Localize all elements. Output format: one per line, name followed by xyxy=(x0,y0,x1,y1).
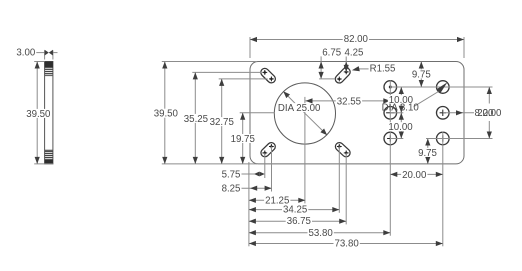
bottom extension slot BL lower hole xyxy=(264,153,266,178)
6.75 horizontal extension to slot xyxy=(319,78,335,80)
svg-text:34.25: 34.25 xyxy=(283,205,307,216)
32.75 dimension xyxy=(221,79,223,164)
hole left-column top xyxy=(384,81,397,94)
svg-text:10.00: 10.00 xyxy=(388,122,413,133)
extension line row3 xyxy=(390,138,403,140)
bottom extension slot BL upper hole xyxy=(271,147,273,192)
left extension circle center xyxy=(240,112,275,114)
svg-text:20.00: 20.00 xyxy=(477,108,502,119)
right column extension line down xyxy=(442,132,444,247)
svg-text:73.80: 73.80 xyxy=(335,239,360,250)
side view: 3.00 dim leader line xyxy=(36,52,45,54)
big circle vertical centerline xyxy=(304,97,306,203)
4.25 dim line and arrows xyxy=(345,56,347,72)
svg-text:35.25: 35.25 xyxy=(184,114,208,125)
6.75 dim line and arrows xyxy=(320,56,322,79)
34.25 dimension xyxy=(249,209,339,211)
21.25 dimension xyxy=(249,199,305,201)
39.50 dimension main xyxy=(164,62,166,164)
svg-text:39.50: 39.50 xyxy=(154,109,179,120)
side view: bottom hatch section xyxy=(45,150,53,152)
extension line right holes row1 xyxy=(390,86,492,88)
svg-text:5.75: 5.75 xyxy=(222,169,241,180)
left extension line bottom edge xyxy=(162,163,257,165)
left extension slot upper hole xyxy=(192,71,261,73)
slot top-center xyxy=(335,68,350,83)
diameter dim arrows on circle xyxy=(283,91,290,98)
slot top-left xyxy=(261,68,276,82)
svg-text:9.75: 9.75 xyxy=(418,148,437,159)
side view: top hatch section xyxy=(45,62,53,68)
DIA 25.00 text xyxy=(277,103,322,112)
20.00 bottom dimension xyxy=(390,173,443,175)
82.00 extension lines xyxy=(249,37,251,58)
73.80 dimension xyxy=(249,243,443,245)
svg-text:DIA 25.00: DIA 25.00 xyxy=(278,103,321,114)
hole right-column bottom xyxy=(437,132,450,145)
8.20 dimension line xyxy=(443,112,474,114)
9.75 top dimension xyxy=(420,62,422,88)
side view: 39.50 extension ticks xyxy=(34,61,44,63)
8.25 dimension xyxy=(241,187,272,189)
svg-text:6.75: 6.75 xyxy=(322,47,341,58)
hole right-column middle xyxy=(437,107,450,120)
32.55 dimension xyxy=(306,100,391,102)
slot bottom-left xyxy=(261,143,275,157)
side view: 3.00 dim arrows xyxy=(45,50,49,56)
10.00 upper dimension xyxy=(400,87,402,113)
36.75 dimension xyxy=(249,220,346,222)
6.75 text xyxy=(321,48,342,57)
diameter dimension line at 45 deg xyxy=(287,95,305,114)
svg-text:R1.55: R1.55 xyxy=(370,64,396,75)
35.25 dimension xyxy=(194,72,196,163)
5.75 dimension xyxy=(241,173,255,175)
svg-text:53.80: 53.80 xyxy=(309,228,334,239)
svg-text:8.25: 8.25 xyxy=(222,184,241,195)
hole right-column top xyxy=(437,81,450,94)
9.75 bottom dimension xyxy=(427,139,429,164)
left extension slot lower hole xyxy=(219,78,268,80)
bottom extension slot BC left hole xyxy=(338,147,340,213)
20.00 vertical dimension right xyxy=(488,87,490,104)
4.25 text xyxy=(344,48,365,57)
19.75 dimension xyxy=(242,113,244,164)
R1.55 leader xyxy=(357,68,369,70)
side view: 3.00 text xyxy=(15,48,36,57)
big circle DIA 25.00 xyxy=(274,83,335,144)
bottom vertical extension left edge xyxy=(248,162,250,246)
53.80 dimension xyxy=(249,232,390,234)
hole left-column bottom xyxy=(384,132,397,145)
extension line row2 short xyxy=(390,112,403,114)
svg-text:19.75: 19.75 xyxy=(231,134,255,145)
svg-text:39.50: 39.50 xyxy=(26,109,51,120)
side view: bar outline xyxy=(45,62,53,164)
10.00 lower dimension xyxy=(400,113,402,139)
hole left-column middle xyxy=(384,107,397,120)
left column centerline xyxy=(389,80,391,236)
svg-text:20.00: 20.00 xyxy=(402,170,427,181)
DIA 3.10 text and leader xyxy=(414,92,439,107)
plate outline rounded rectangle xyxy=(250,62,464,164)
svg-text:32.55: 32.55 xyxy=(337,97,361,108)
svg-text:82.00: 82.00 xyxy=(344,34,369,45)
svg-text:32.75: 32.75 xyxy=(210,117,234,128)
82.00 dimension xyxy=(250,39,464,41)
slot bottom-center xyxy=(335,143,350,157)
svg-text:4.25: 4.25 xyxy=(345,47,364,58)
svg-text:3.00: 3.00 xyxy=(16,47,35,58)
svg-text:36.75: 36.75 xyxy=(287,216,311,227)
R1.55 text xyxy=(369,64,397,73)
svg-text:9.75: 9.75 xyxy=(412,69,431,80)
svg-text:DIA 3.10: DIA 3.10 xyxy=(382,103,420,114)
left extension line top edge xyxy=(162,61,257,63)
bottom extension slot BC right hole xyxy=(345,153,347,225)
side view: 3.00 dim extension lines xyxy=(44,50,46,59)
side view: 39.50 dim xyxy=(36,62,38,164)
